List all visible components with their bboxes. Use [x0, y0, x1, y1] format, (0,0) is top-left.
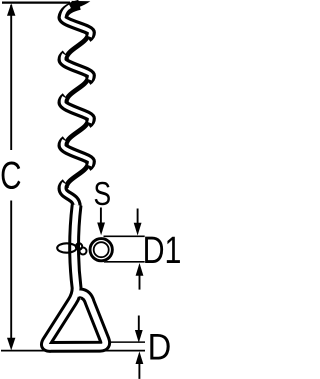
helix last turn into shaft [63, 183, 77, 206]
dimension C line upper segment [10, 5, 12, 150]
dimension D top reference line [108, 341, 145, 343]
label C [0, 155, 21, 198]
helix back pass line 3 [67, 121, 88, 143]
dimension C arrow up [7, 3, 15, 16]
svg-text:D1: D1 [143, 230, 182, 272]
shaft and triangular handle (wire outline) [46, 205, 105, 347]
dimension D lower arrow line [138, 363, 140, 379]
ring (torus) [89, 237, 114, 262]
helix back pass line 2 [67, 78, 88, 100]
svg-text:C: C [0, 155, 21, 198]
swivel connector loop lower [80, 248, 87, 255]
top extension line [2, 1, 70, 3]
bottom baseline extension line [1, 350, 145, 352]
dimension D lower arrowhead [136, 351, 144, 364]
helix front band turn 4 [63, 140, 91, 167]
helix back pass line 1 [67, 35, 88, 57]
label D [148, 327, 172, 368]
dimension D1 upper arrowhead [134, 223, 142, 236]
helix front band turn 2 [63, 54, 91, 80]
dimension D1 top reference line [104, 235, 145, 237]
helix front band turn 3 [63, 97, 91, 124]
dimension D1 upper arrow line [137, 209, 139, 225]
dimension C line lower segment [10, 201, 12, 340]
label S arrowhead [97, 223, 105, 236]
dimension D upper arrow line [138, 316, 140, 332]
helix front band turn 1 (tip turn) [63, 5, 91, 38]
label D1 [143, 230, 182, 272]
sharp tip of spike [72, 1, 91, 9]
helix back pass line 4 [67, 164, 88, 186]
dimension D1 lower arrowhead [136, 263, 144, 276]
dimension C arrow down [7, 338, 15, 351]
swivel eyelet oval across shaft [57, 243, 76, 252]
label S pointer line [100, 208, 102, 225]
label S [94, 176, 112, 212]
swivel connector loop upper [76, 243, 82, 249]
svg-text:S: S [94, 176, 112, 212]
dimension D1 bottom reference line [104, 261, 145, 263]
dimension D upper arrowhead [135, 330, 143, 343]
svg-text:D: D [148, 327, 172, 368]
dimension D1 lower arrow line [139, 275, 141, 290]
